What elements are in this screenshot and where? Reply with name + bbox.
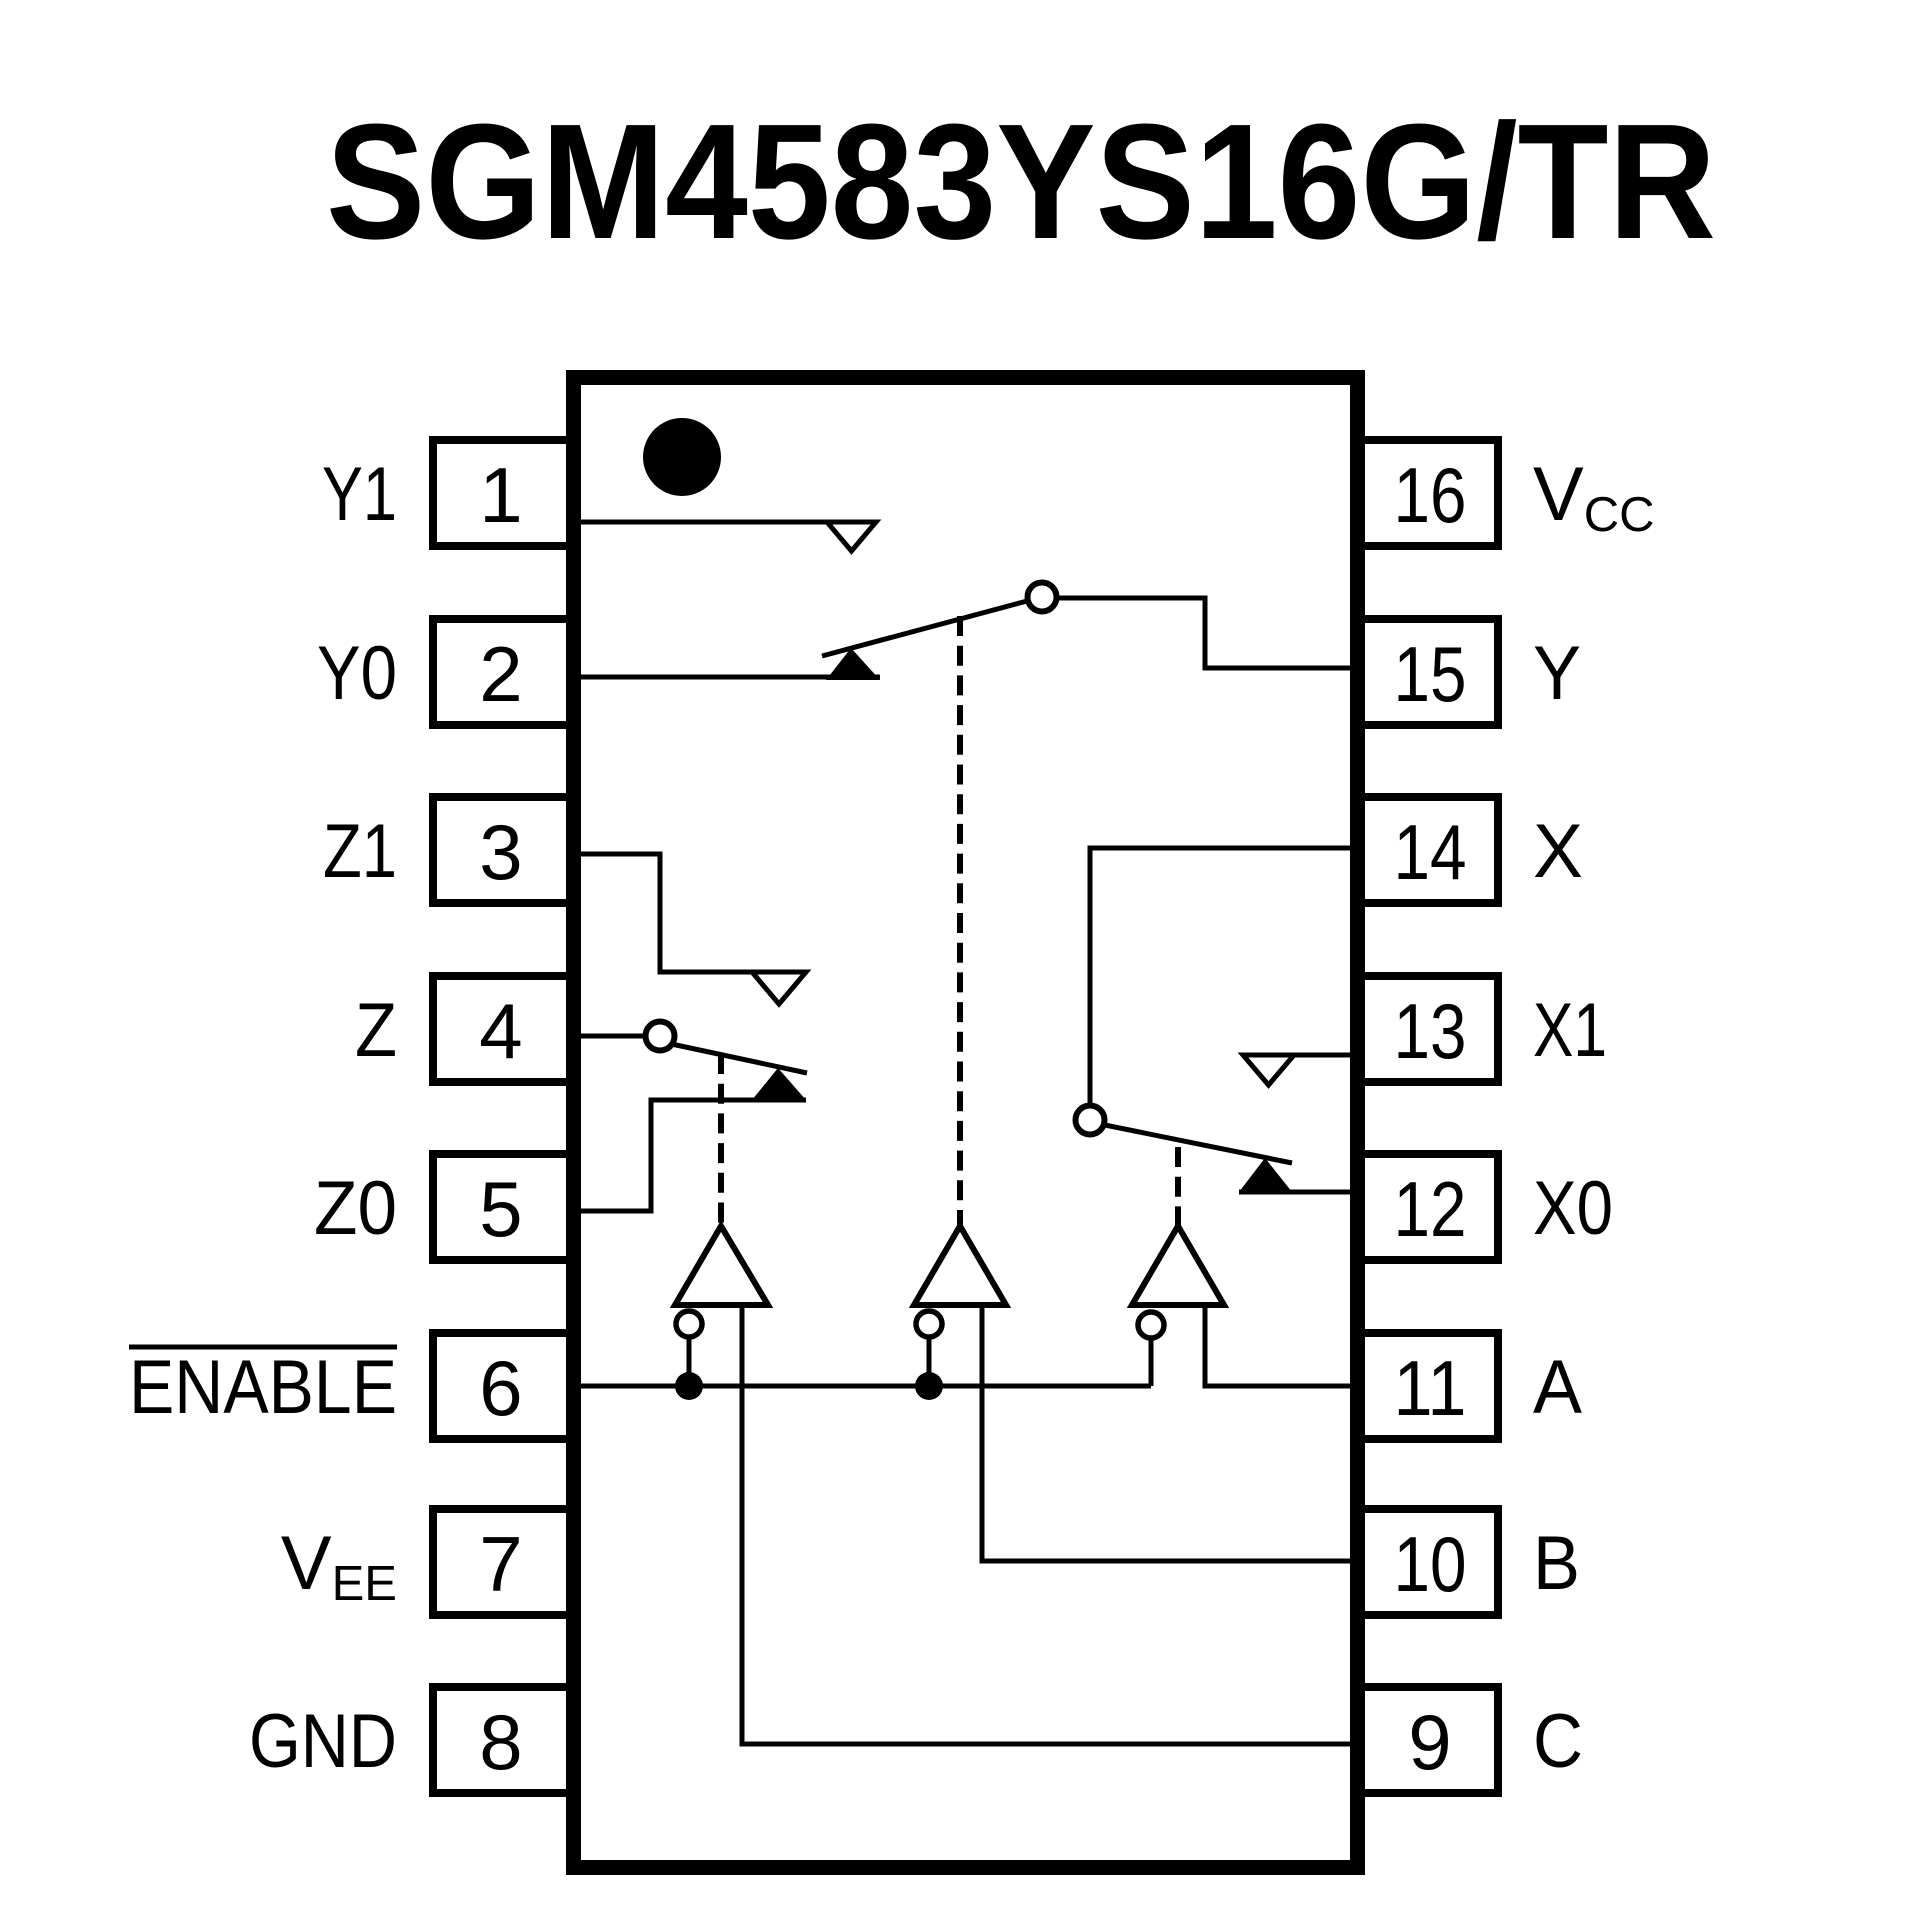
svg-text:X: X: [1533, 809, 1583, 894]
svg-text:12: 12: [1394, 1165, 1467, 1253]
svg-text:15: 15: [1394, 630, 1467, 718]
svg-text:X1: X1: [1533, 988, 1607, 1073]
svg-text:SGM4583YS16G/TR: SGM4583YS16G/TR: [326, 90, 1716, 273]
svg-text:16: 16: [1394, 451, 1467, 539]
svg-text:X0: X0: [1533, 1166, 1613, 1251]
svg-text:3: 3: [479, 808, 522, 896]
svg-text:A: A: [1533, 1345, 1582, 1430]
svg-text:Y0: Y0: [317, 631, 397, 716]
svg-text:13: 13: [1394, 987, 1467, 1075]
svg-text:ENABLE: ENABLE: [129, 1345, 397, 1430]
svg-text:C: C: [1533, 1699, 1583, 1784]
svg-text:11: 11: [1394, 1344, 1467, 1432]
svg-text:2: 2: [479, 630, 522, 718]
svg-text:9: 9: [1408, 1698, 1451, 1786]
svg-text:10: 10: [1394, 1520, 1467, 1608]
svg-text:Y1: Y1: [322, 452, 397, 537]
svg-text:GND: GND: [249, 1699, 397, 1784]
svg-text:Z: Z: [355, 988, 397, 1073]
svg-text:Y: Y: [1533, 631, 1581, 716]
svg-text:Z1: Z1: [323, 809, 397, 894]
svg-text:4: 4: [479, 987, 522, 1075]
svg-text:8: 8: [479, 1698, 522, 1786]
svg-text:14: 14: [1394, 808, 1467, 896]
svg-text:1: 1: [479, 451, 522, 539]
svg-text:5: 5: [479, 1165, 522, 1253]
svg-text:7: 7: [479, 1520, 522, 1608]
svg-text:6: 6: [479, 1344, 522, 1432]
svg-text:B: B: [1533, 1521, 1580, 1606]
svg-text:Z0: Z0: [314, 1166, 397, 1251]
